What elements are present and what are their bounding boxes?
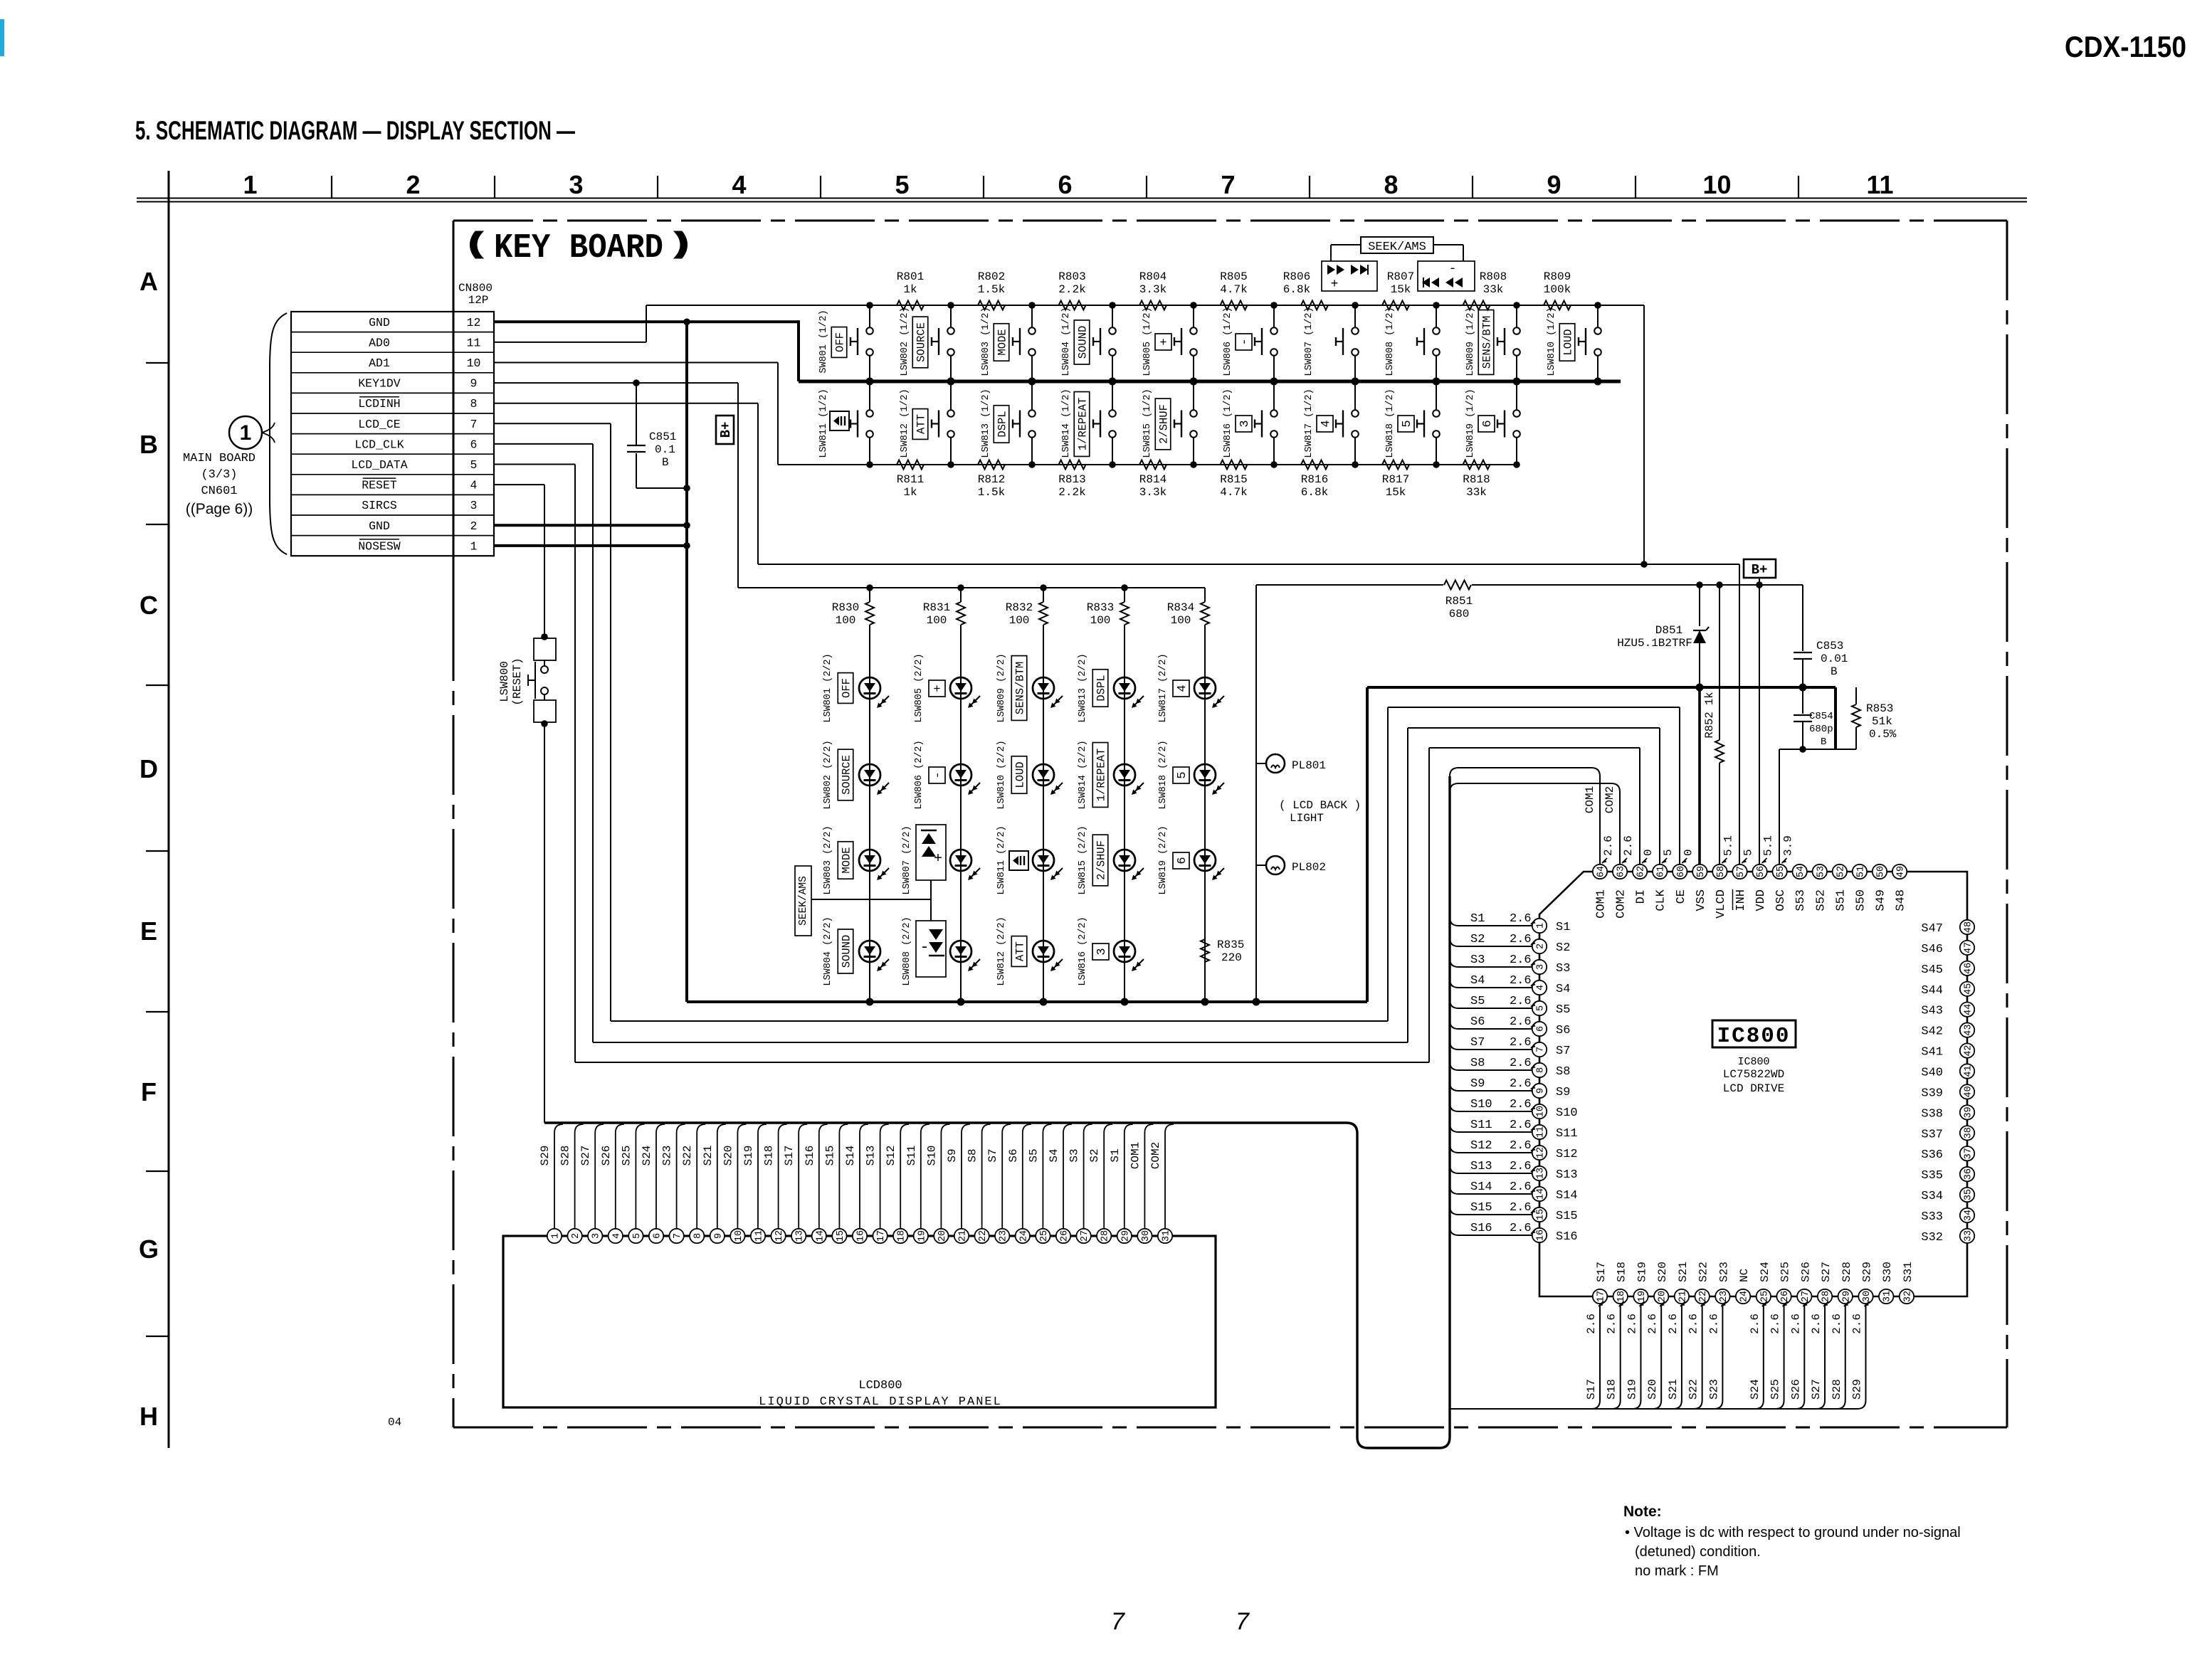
svg-text:3: 3 — [1095, 948, 1109, 955]
svg-text:8: 8 — [470, 397, 478, 411]
junction — [1028, 461, 1036, 468]
IC800 pin 13 S13 — [1532, 1166, 1547, 1180]
svg-text:S8: S8 — [967, 1148, 979, 1162]
switch LSW814 (1/2) — [1112, 381, 1113, 410]
svg-text:41: 41 — [1964, 1065, 1974, 1077]
junction — [1028, 302, 1036, 309]
IC800 pin 8 S8 — [1532, 1063, 1547, 1077]
svg-text:S19: S19 — [1636, 1262, 1648, 1282]
svg-text:1k: 1k — [903, 283, 917, 296]
svg-text:S11: S11 — [1470, 1119, 1492, 1132]
svg-text:9: 9 — [1536, 1088, 1547, 1094]
svg-text:S25: S25 — [620, 1146, 633, 1166]
LCD800 pin 11 S19 — [751, 1229, 765, 1243]
thick bus from LED common to VSS area — [1366, 687, 1369, 1002]
LCD800 pin 1 S29 — [547, 1229, 562, 1243]
IC800 pin 9 S9 — [1532, 1084, 1547, 1098]
svg-text:S5: S5 — [1027, 1148, 1040, 1162]
svg-text:S16: S16 — [804, 1146, 816, 1166]
svg-text:28: 28 — [1821, 1291, 1832, 1302]
svg-text:16: 16 — [856, 1230, 867, 1242]
svg-text:S41: S41 — [1921, 1046, 1943, 1059]
VDD feed to pin 56 — [1759, 585, 1760, 865]
svg-text:-: - — [1449, 262, 1457, 276]
capacitor C853 0.01 B — [1794, 652, 1812, 653]
switch LSW816 (1/2) — [1273, 381, 1275, 410]
svg-text:S19: S19 — [742, 1146, 755, 1166]
grid column tick 1|2 — [331, 176, 332, 198]
svg-text:S15: S15 — [1470, 1201, 1492, 1215]
svg-text:-: - — [920, 939, 929, 956]
svg-text:2.6: 2.6 — [1510, 1119, 1532, 1132]
IC800 pin 38 S37 — [1960, 1126, 1974, 1140]
LCD800 pin 12 S18 — [771, 1229, 785, 1243]
junction — [1109, 302, 1116, 309]
svg-text:LC75822WD: LC75822WD — [1723, 1068, 1784, 1081]
junction — [1270, 378, 1278, 386]
svg-text:S46: S46 — [1921, 943, 1943, 956]
svg-text:A: A — [139, 267, 158, 296]
resistor R818 33k — [1463, 460, 1490, 470]
svg-text:R830: R830 — [832, 601, 859, 614]
grid row tick F|G — [146, 1170, 169, 1172]
svg-text:58: 58 — [1716, 866, 1727, 877]
svg-text:S22: S22 — [681, 1146, 694, 1166]
LED LSW817 (2/2) — [1204, 625, 1206, 699]
LCD800 pin 14 S16 — [812, 1229, 826, 1243]
resistor R832 100 — [1040, 584, 1047, 591]
svg-text:19: 19 — [917, 1230, 927, 1242]
wire S7 feed — [1450, 1041, 1532, 1050]
svg-text:COM1: COM1 — [1595, 889, 1608, 919]
svg-text:2.6: 2.6 — [1667, 1313, 1680, 1334]
svg-text:S6: S6 — [1007, 1148, 1020, 1162]
svg-text:COM2: COM2 — [1603, 786, 1616, 813]
svg-text:CDX-1150: CDX-1150 — [2065, 30, 2186, 63]
svg-text:55: 55 — [1776, 866, 1786, 877]
svg-text:27: 27 — [1801, 1291, 1811, 1302]
svg-text:LSW814 (1/2): LSW814 (1/2) — [1061, 388, 1072, 458]
LED LSW812 (2/2) — [1043, 860, 1044, 962]
svg-text:R803: R803 — [1058, 270, 1085, 283]
svg-text:DSPL: DSPL — [996, 411, 1009, 437]
wire S16 feed — [1450, 1227, 1532, 1235]
svg-text:GND: GND — [369, 519, 390, 533]
svg-text:10: 10 — [1536, 1106, 1547, 1117]
IC800 pin 48 S47 — [1960, 920, 1974, 934]
switch LSW811 (1/2) — [869, 381, 870, 410]
switch LSW806 (1/2) — [1273, 305, 1275, 327]
IC800 pin 24 NC — [1736, 1289, 1750, 1304]
reference circle 1 to main board — [229, 416, 262, 449]
resistor R817 15k — [1382, 460, 1409, 470]
svg-text:S23: S23 — [1717, 1262, 1730, 1282]
IC800 pin 62 DI — [1633, 865, 1647, 879]
svg-text:25: 25 — [1039, 1230, 1050, 1242]
svg-text:2.6: 2.6 — [1510, 933, 1532, 946]
svg-text:S18: S18 — [1606, 1379, 1618, 1400]
svg-text:SOURCE: SOURCE — [915, 322, 928, 362]
svg-text:19: 19 — [1637, 1291, 1648, 1302]
SEEK/AMS vertical label — [795, 866, 811, 936]
svg-text:OSC: OSC — [1774, 889, 1788, 911]
svg-text:LCD DRIVE: LCD DRIVE — [1723, 1082, 1784, 1095]
svg-text:29: 29 — [1120, 1230, 1131, 1242]
junction — [947, 461, 954, 468]
IC800 pin 19 S19 — [1633, 1289, 1648, 1304]
svg-text:S28: S28 — [1840, 1262, 1853, 1282]
svg-text:8: 8 — [1384, 170, 1398, 199]
IC800 pin 26 S25 — [1776, 1289, 1791, 1304]
svg-text:SEEK/AMS: SEEK/AMS — [798, 876, 809, 926]
svg-text:0: 0 — [1642, 849, 1655, 856]
svg-text:S2: S2 — [1470, 933, 1485, 946]
svg-text:-: - — [1238, 338, 1252, 345]
IC800 pin 55 OSC — [1772, 865, 1786, 879]
svg-text:2: 2 — [470, 519, 478, 533]
svg-text:6: 6 — [653, 1233, 663, 1239]
blue corner tab — [0, 19, 4, 56]
svg-text:18: 18 — [897, 1230, 907, 1242]
IC800 pin 60 CE — [1673, 865, 1687, 879]
svg-text:S7: S7 — [1556, 1045, 1570, 1058]
svg-text:LIQUID CRYSTAL DISPLAY PANEL: LIQUID CRYSTAL DISPLAY PANEL — [759, 1395, 1002, 1409]
IC800 pin 39 S38 — [1960, 1105, 1974, 1119]
svg-text:5: 5 — [1401, 420, 1414, 427]
svg-text:S16: S16 — [1556, 1230, 1578, 1244]
svg-text:S29: S29 — [1860, 1262, 1873, 1282]
LCD800 pin 8 S22 — [690, 1229, 704, 1243]
svg-text:S17: S17 — [1595, 1262, 1608, 1282]
svg-text:S14: S14 — [1556, 1189, 1578, 1202]
wire LCD_CLK pin6 to IC CLK — [494, 443, 593, 445]
svg-text:S49: S49 — [1874, 889, 1887, 911]
svg-text:LSW811 (1/2): LSW811 (1/2) — [818, 388, 829, 458]
svg-text:LCD_CE: LCD_CE — [358, 418, 401, 431]
LCD800 pin 24 S6 — [1016, 1229, 1030, 1243]
svg-text:S12: S12 — [1470, 1139, 1492, 1153]
svg-text:10: 10 — [467, 356, 481, 370]
IC800 pin 11 S11 — [1532, 1125, 1547, 1139]
keyboard section dashed border — [453, 220, 2007, 222]
svg-text:SIRCS: SIRCS — [362, 499, 397, 512]
IC800 pin 36 S35 — [1960, 1167, 1974, 1181]
svg-text:S12: S12 — [885, 1146, 897, 1166]
svg-text:AD1: AD1 — [369, 356, 390, 370]
svg-text:21: 21 — [1678, 1291, 1688, 1302]
LED anode rail from B+ — [738, 587, 1205, 588]
resistor R830 100 — [866, 584, 873, 591]
IC800 pin 50 S49 — [1873, 865, 1887, 879]
svg-text:R852 1k: R852 1k — [1703, 692, 1716, 738]
B+ flag right — [1744, 559, 1776, 578]
IC800 pin 63 COM2 — [1613, 865, 1627, 879]
grid row tick D|E — [146, 850, 169, 852]
svg-text:9: 9 — [1547, 170, 1561, 199]
B+ flag (keyboard LED rail) — [716, 416, 734, 444]
svg-text:25: 25 — [1759, 1291, 1770, 1302]
svg-text:28: 28 — [1100, 1230, 1111, 1242]
resistor R835 220 — [1204, 869, 1206, 939]
switch LSW805 (1/2) — [1193, 305, 1194, 327]
LCD800 pin 4 S26 — [609, 1229, 623, 1243]
svg-text:R806: R806 — [1283, 270, 1310, 283]
resistor R816 6.8k — [1301, 460, 1328, 470]
grid row tick G|H — [146, 1336, 169, 1337]
switch LSW800 (RESET) — [541, 633, 548, 640]
wire S1 feed — [1450, 917, 1532, 926]
svg-text:52: 52 — [1836, 866, 1846, 877]
IC800 pin 3 S3 — [1532, 960, 1547, 974]
svg-text:4.7k: 4.7k — [1220, 283, 1247, 296]
svg-text:MAIN BOARD: MAIN BOARD — [183, 452, 256, 465]
svg-text:2/SHUF: 2/SHUF — [1158, 404, 1171, 444]
svg-text:46: 46 — [1964, 963, 1974, 974]
LED LSW810 (2/2) — [1043, 688, 1044, 786]
svg-text:2.6: 2.6 — [1510, 1036, 1532, 1050]
svg-text:COM1: COM1 — [1129, 1142, 1142, 1169]
LCD800 panel body — [503, 1236, 1216, 1407]
svg-text:S53: S53 — [1794, 889, 1808, 911]
svg-text:2.6: 2.6 — [1510, 1160, 1532, 1173]
grid column tick 3|4 — [657, 176, 658, 198]
svg-text:44: 44 — [1964, 1004, 1974, 1015]
svg-text:S12: S12 — [1556, 1148, 1578, 1161]
svg-text:2.6: 2.6 — [1831, 1313, 1843, 1334]
resistor R801 1k — [897, 301, 924, 310]
resistor R802 1.5k — [978, 301, 1005, 310]
grid column tick 9|10 — [1635, 176, 1636, 198]
svg-text:2.6: 2.6 — [1606, 1313, 1618, 1334]
svg-text:LSW808 (1/2): LSW808 (1/2) — [1385, 307, 1396, 376]
svg-text:2.2k: 2.2k — [1058, 283, 1085, 296]
LCD800 pin 17 S13 — [873, 1229, 887, 1243]
LCD800 pin 30 COM1 — [1137, 1229, 1152, 1243]
grid row tick B|C — [146, 524, 169, 525]
IC800 pin 56 VDD — [1752, 865, 1766, 879]
svg-text:20: 20 — [937, 1230, 948, 1242]
thick VSS line to IC pin 59 — [1698, 687, 1701, 865]
wire GND pin2 (thick) — [494, 524, 687, 527]
svg-text:S1: S1 — [1556, 921, 1570, 934]
svg-text:49: 49 — [1896, 866, 1907, 877]
IC800 pin 58 VLCD — [1712, 865, 1727, 879]
svg-text:53: 53 — [1816, 866, 1826, 877]
svg-text:S2: S2 — [1088, 1148, 1101, 1162]
IC800 pin 25 S24 — [1757, 1289, 1771, 1304]
IC800 pin 18 S18 — [1613, 1289, 1628, 1304]
svg-text:S3: S3 — [1068, 1148, 1081, 1162]
svg-text:LSW817 (1/2): LSW817 (1/2) — [1304, 388, 1315, 458]
IC800 pin 16 S16 — [1532, 1228, 1547, 1242]
svg-text:((Page 6)): ((Page 6)) — [186, 501, 253, 517]
svg-text:VLCD: VLCD — [1715, 889, 1728, 919]
svg-text:7: 7 — [470, 418, 478, 431]
LCD800 pin 29 S1 — [1117, 1229, 1132, 1243]
COM2 line to pin 63 — [1450, 783, 1620, 865]
IC800 pin 7 S7 — [1532, 1042, 1547, 1057]
LCD800 pin 20 S10 — [934, 1229, 948, 1243]
wire S11 feed — [1450, 1124, 1532, 1132]
svg-text:LOUD: LOUD — [1562, 329, 1575, 355]
LCD800 pin 23 S7 — [995, 1229, 1009, 1243]
svg-text:51: 51 — [1855, 866, 1866, 877]
grid column tick 6|7 — [1146, 176, 1147, 198]
svg-text:VDD: VDD — [1754, 889, 1768, 911]
svg-text:43: 43 — [1964, 1025, 1974, 1036]
svg-text:S50: S50 — [1854, 889, 1868, 911]
svg-text:CN800: CN800 — [458, 282, 493, 295]
LCD800 pin 26 S4 — [1056, 1229, 1070, 1243]
svg-text:S18: S18 — [1616, 1262, 1628, 1282]
connector CN800 12P body — [291, 312, 494, 556]
svg-text:2.6: 2.6 — [1707, 1313, 1720, 1334]
svg-text:( LCD BACK ): ( LCD BACK ) — [1279, 799, 1361, 812]
svg-text:LSW806 (1/2): LSW806 (1/2) — [1223, 307, 1233, 376]
svg-text:63: 63 — [1616, 866, 1627, 877]
wire LCDINH pin8 to IC INH — [494, 403, 758, 404]
svg-text:+: + — [1158, 338, 1171, 345]
LED LSW815 (2/2) — [1124, 775, 1125, 871]
LSW808 seek- icon box — [916, 921, 946, 977]
svg-text:2: 2 — [571, 1233, 581, 1239]
svg-text:61: 61 — [1656, 866, 1667, 877]
svg-text:MODE: MODE — [996, 329, 1009, 355]
junction — [1190, 378, 1198, 386]
svg-text:S24: S24 — [641, 1146, 653, 1166]
svg-text:R812: R812 — [978, 473, 1005, 486]
switch LSW813 (1/2) — [1031, 381, 1033, 410]
IC800 pin 53 S52 — [1813, 865, 1827, 879]
svg-text:R802: R802 — [978, 270, 1005, 283]
LCD800 pin 10 S20 — [730, 1229, 744, 1243]
grid column tick 7|8 — [1309, 176, 1310, 198]
svg-text:100: 100 — [1171, 614, 1191, 627]
svg-text:26: 26 — [1780, 1291, 1791, 1302]
IC800 name box — [1712, 1020, 1796, 1047]
switch LSW812 (1/2) — [950, 381, 952, 410]
IC800 pin 5 S5 — [1532, 1001, 1547, 1015]
svg-text:3: 3 — [470, 499, 478, 512]
svg-text:S20: S20 — [1656, 1262, 1669, 1282]
svg-text:S27: S27 — [1810, 1379, 1823, 1400]
IC800 pin 20 S20 — [1654, 1289, 1668, 1304]
svg-text:5: 5 — [1662, 849, 1675, 856]
svg-text:0.1: 0.1 — [655, 443, 675, 456]
svg-text:26: 26 — [1060, 1230, 1070, 1242]
svg-text:S45: S45 — [1921, 963, 1943, 977]
junction — [1190, 302, 1197, 309]
svg-text:64: 64 — [1596, 866, 1607, 877]
svg-text:LSW812 (2/2): LSW812 (2/2) — [996, 916, 1007, 985]
svg-text:S10: S10 — [1470, 1098, 1492, 1111]
svg-text:4: 4 — [470, 479, 478, 492]
resistor R803 2.2k — [1059, 301, 1086, 310]
svg-text:1k: 1k — [903, 486, 917, 499]
seek forward icon box (LSW807) — [1322, 261, 1377, 291]
grid column tick 2|3 — [494, 176, 495, 198]
svg-text:21: 21 — [958, 1230, 969, 1242]
svg-text:VSS: VSS — [1695, 889, 1708, 911]
svg-text:15k: 15k — [1391, 283, 1411, 296]
svg-text:51k: 51k — [1872, 715, 1892, 728]
svg-text:S21: S21 — [1677, 1262, 1690, 1282]
IC800 pin 12 S12 — [1532, 1146, 1547, 1160]
IC800 pin 31 S30 — [1879, 1289, 1893, 1304]
svg-text:680: 680 — [1449, 608, 1470, 620]
svg-text:COM2: COM2 — [1615, 889, 1628, 919]
svg-text:6: 6 — [1536, 1026, 1547, 1032]
svg-text:LSW811 (2/2): LSW811 (2/2) — [996, 825, 1007, 894]
svg-text:6.8k: 6.8k — [1301, 486, 1328, 499]
LED LSW809 (2/2) — [1043, 625, 1044, 699]
svg-text:S28: S28 — [1831, 1379, 1843, 1400]
svg-text:S9: S9 — [1470, 1077, 1485, 1091]
svg-text:6: 6 — [1058, 170, 1072, 199]
LCD800 pin 27 S3 — [1076, 1229, 1090, 1243]
svg-text:2.6: 2.6 — [1749, 1313, 1761, 1334]
svg-text:S29: S29 — [539, 1146, 552, 1166]
resistor R814 3.3k — [1139, 460, 1166, 470]
svg-text:11: 11 — [754, 1230, 765, 1242]
svg-text:2.6: 2.6 — [1585, 1313, 1598, 1334]
svg-text:56: 56 — [1756, 866, 1766, 877]
svg-text:5: 5 — [1176, 771, 1189, 778]
svg-text:S26: S26 — [1799, 1262, 1812, 1282]
svg-text:R831: R831 — [923, 601, 950, 614]
IC800 pin 47 S46 — [1960, 941, 1974, 955]
svg-text:LIGHT: LIGHT — [1290, 812, 1324, 825]
svg-text:7: 7 — [1536, 1047, 1547, 1052]
svg-text:2.6: 2.6 — [1510, 1139, 1532, 1153]
junction — [1433, 302, 1440, 309]
svg-text:S10: S10 — [1556, 1106, 1578, 1120]
LED LSW808 (2/2) — [960, 860, 962, 962]
junction — [1109, 461, 1116, 468]
IC800 pin 21 S21 — [1675, 1289, 1689, 1304]
thick GND vertical from connector to LED bus — [685, 322, 688, 1002]
svg-text:12: 12 — [467, 316, 481, 329]
zener diode D851 HZU5.1B2TRF — [1696, 581, 1703, 588]
LED LSW806 (2/2) — [960, 688, 962, 786]
svg-text:SENS/BTM: SENS/BTM — [1481, 316, 1494, 369]
switch LSW818 (1/2) — [1436, 381, 1437, 410]
thick key GND bus — [799, 380, 1621, 384]
IC800 pin 30 S29 — [1858, 1289, 1873, 1304]
svg-text:LSW816 (2/2): LSW816 (2/2) — [1078, 916, 1088, 985]
svg-text:9: 9 — [713, 1233, 724, 1239]
svg-text:S23: S23 — [1707, 1379, 1720, 1400]
svg-text:6: 6 — [1481, 420, 1495, 427]
svg-text:10: 10 — [1702, 170, 1731, 199]
svg-text:LSW807 (1/2): LSW807 (1/2) — [1304, 307, 1315, 376]
resistor R809 100k — [1544, 301, 1571, 310]
junction — [947, 378, 955, 386]
svg-text:ATT: ATT — [915, 414, 928, 434]
svg-text:S9: S9 — [1556, 1086, 1570, 1099]
LCD800 pin 22 S8 — [974, 1229, 989, 1243]
svg-text:1.5k: 1.5k — [978, 283, 1005, 296]
SEEK/AMS label box — [1361, 237, 1433, 253]
svg-text:S31: S31 — [1902, 1262, 1915, 1282]
svg-text:+: + — [1331, 277, 1339, 292]
svg-text:SEEK/AMS: SEEK/AMS — [1368, 240, 1426, 254]
svg-text:S37: S37 — [1921, 1128, 1943, 1141]
svg-text:AD0: AD0 — [369, 336, 390, 349]
resistor R805 4.7k — [1221, 301, 1248, 310]
svg-text:LSW802 (1/2): LSW802 (1/2) — [900, 307, 910, 376]
top resistor ladder wire — [646, 305, 1644, 306]
